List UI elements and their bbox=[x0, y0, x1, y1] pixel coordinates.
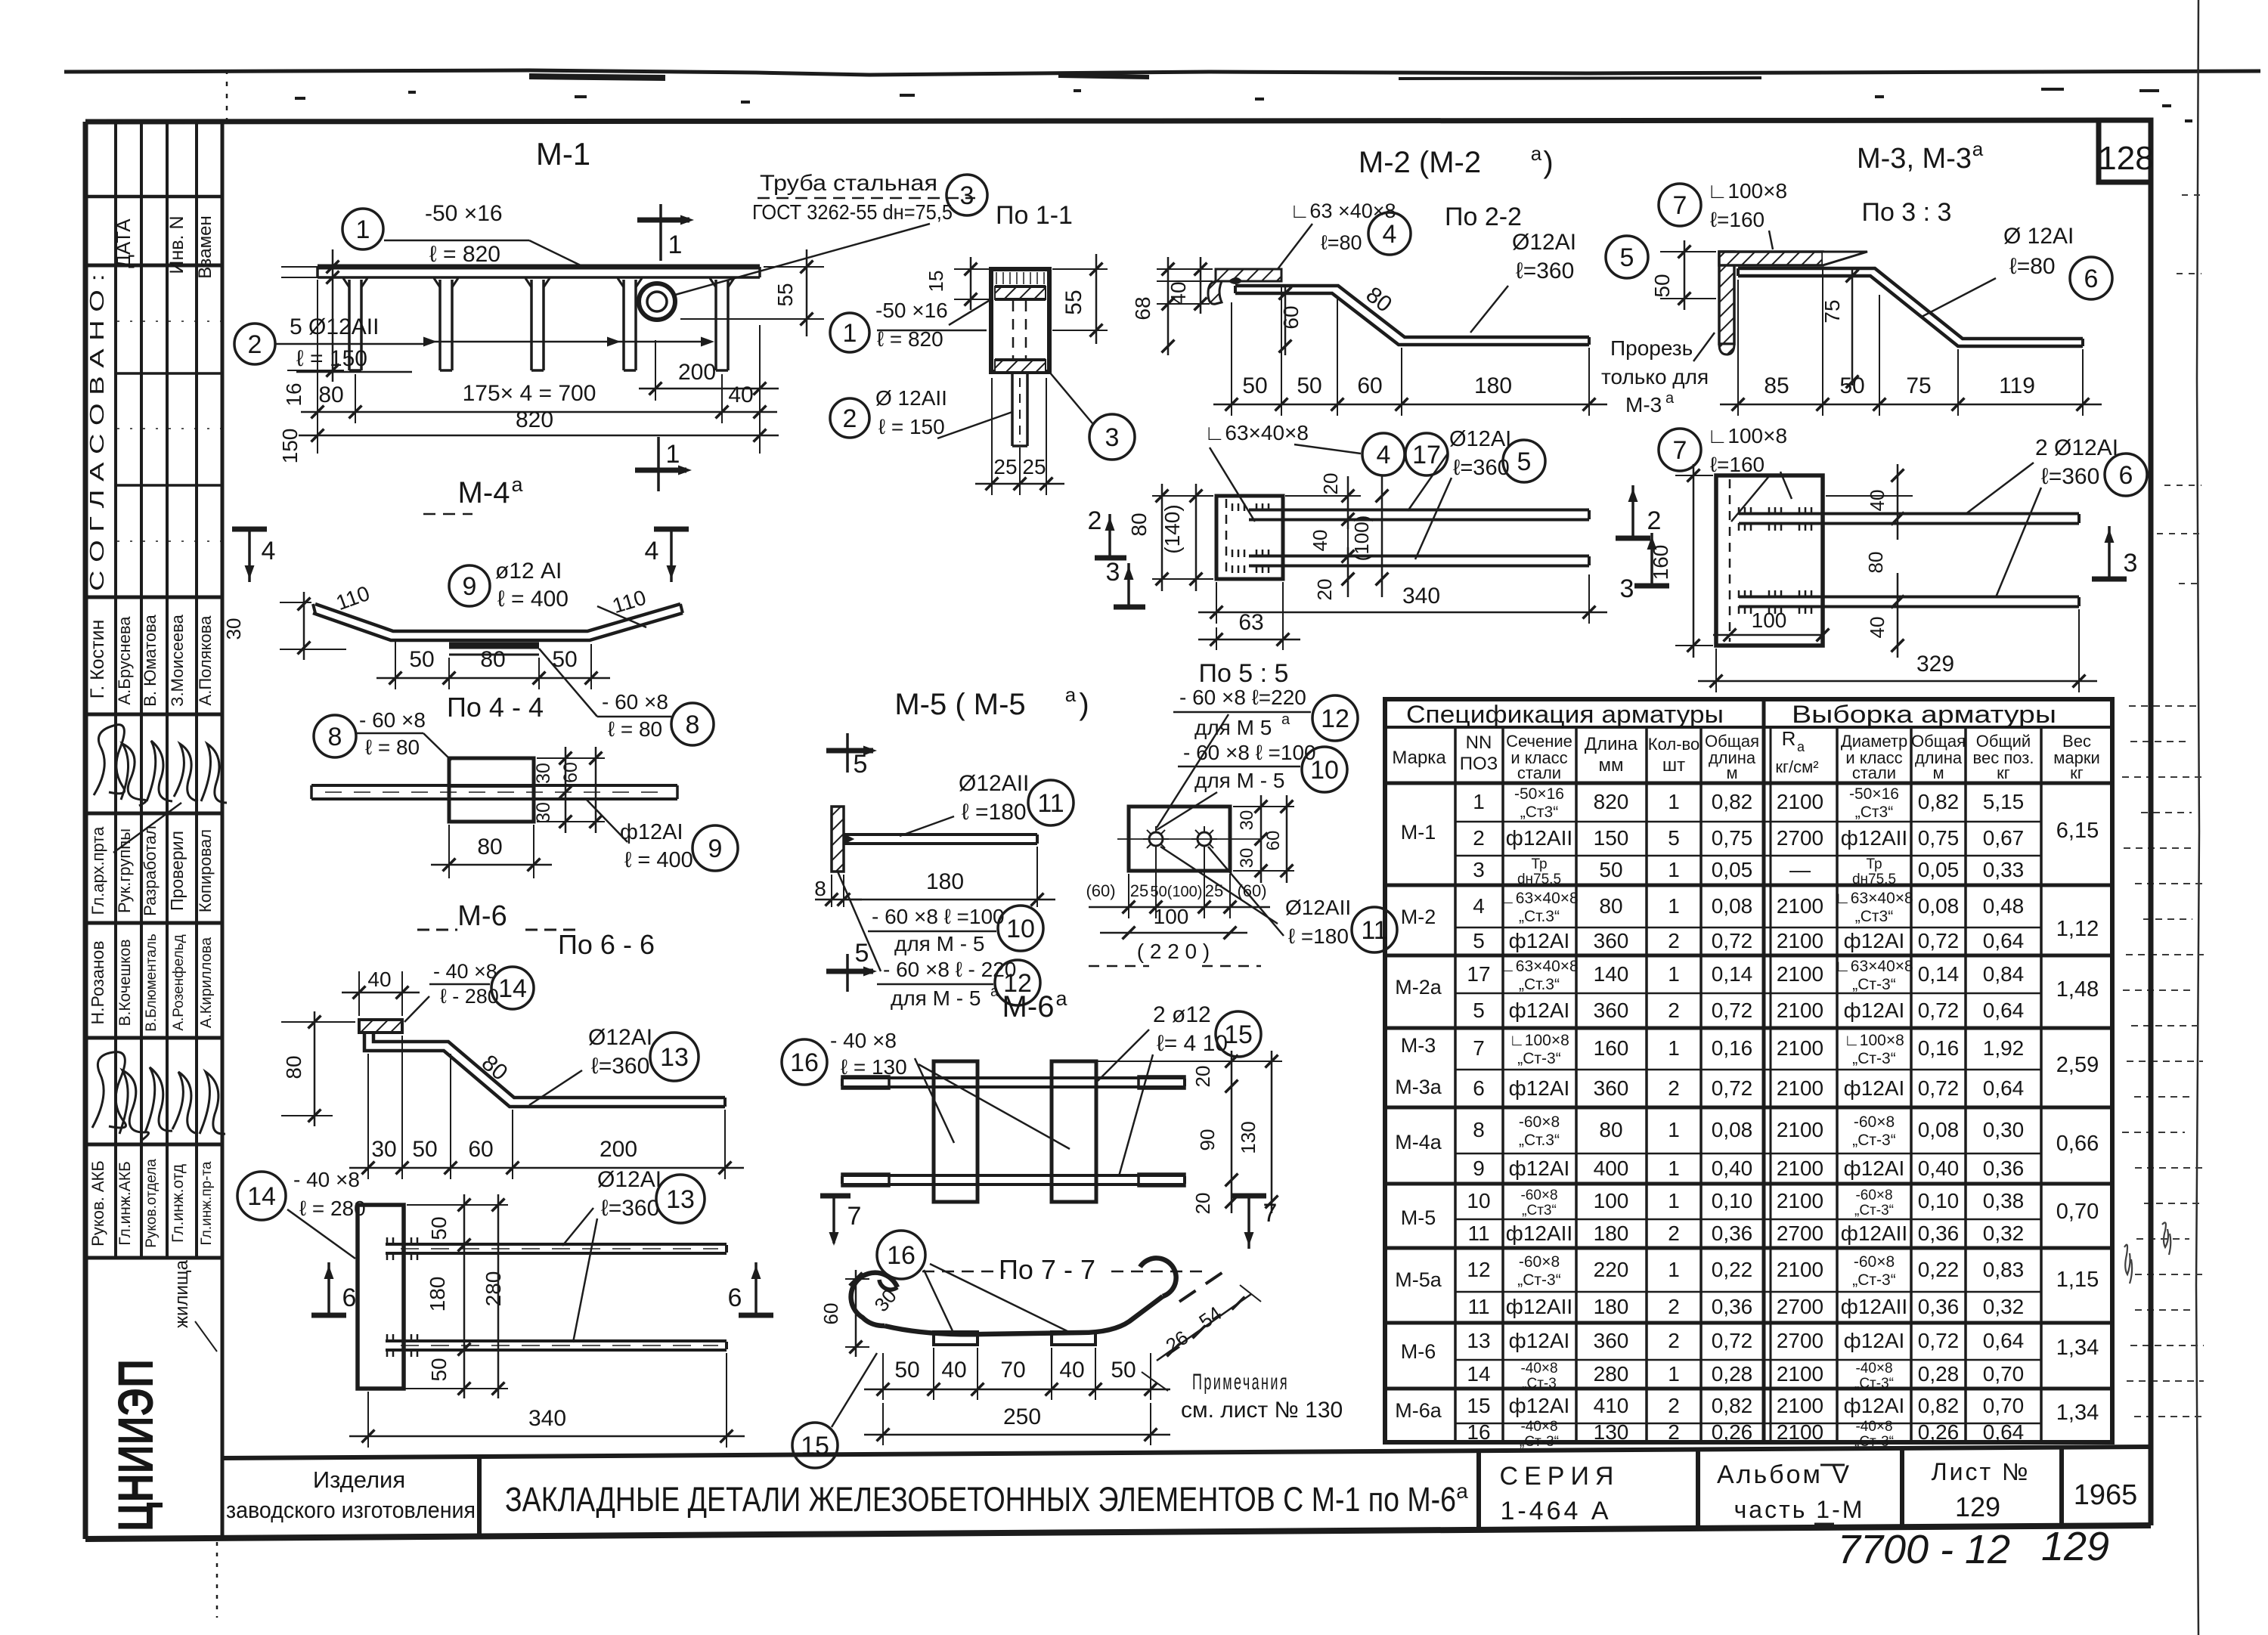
M-4a bent rod (pos 9) bbox=[315, 604, 680, 631]
svg-text:- 60 ×8: - 60 ×8 bbox=[359, 708, 426, 732]
svg-text:-40×8: -40×8 bbox=[1855, 1419, 1892, 1435]
svg-text:„Ст-3“: „Ст-3“ bbox=[1852, 1271, 1895, 1289]
svg-text:1: 1 bbox=[1668, 1036, 1680, 1060]
M-4a middle plate (pos 8) bbox=[449, 643, 539, 649]
svg-text:ℓ - 280: ℓ - 280 bbox=[440, 985, 499, 1008]
spec table row lines bbox=[1455, 821, 2041, 823]
svg-text:2100: 2100 bbox=[1777, 894, 1823, 918]
svg-text:40: 40 bbox=[941, 1358, 966, 1383]
M-6a section mark 7 right bbox=[1247, 1196, 1250, 1249]
svg-text:2100: 2100 bbox=[1777, 1420, 1823, 1444]
svg-text:40: 40 bbox=[1309, 530, 1331, 552]
M-2 bottom dims 50 50 60 180 bbox=[1231, 302, 1232, 416]
svg-text:2: 2 bbox=[1473, 826, 1485, 850]
svg-text:(140): (140) bbox=[1160, 504, 1184, 553]
svg-text:3: 3 bbox=[960, 181, 974, 210]
svg-text:-40×8: -40×8 bbox=[1520, 1419, 1557, 1435]
svg-text:-60×8: -60×8 bbox=[1519, 1113, 1560, 1131]
svg-text:0,72: 0,72 bbox=[1712, 929, 1753, 952]
svg-text:16: 16 bbox=[887, 1241, 916, 1270]
svg-text:160: 160 bbox=[1594, 1036, 1629, 1060]
svg-text:63: 63 bbox=[1238, 610, 1263, 635]
svg-text:А.Полякова: А.Полякова bbox=[196, 615, 215, 706]
svg-text:5: 5 bbox=[1620, 243, 1634, 272]
M-3 plan dims 40 80 40 bbox=[1826, 495, 1913, 497]
M-2 diag label 80 bbox=[1362, 282, 1397, 317]
svg-text:ф12АI: ф12АI bbox=[1509, 1329, 1570, 1352]
svg-text:-60×8: -60×8 bbox=[1520, 1188, 1557, 1203]
svg-text:1,34: 1,34 bbox=[2056, 1336, 2099, 1360]
svg-text:ℓ = 820: ℓ = 820 bbox=[429, 242, 500, 267]
M-2 weld dot bbox=[1229, 278, 1241, 283]
Po5-5 plate rect bbox=[1129, 807, 1230, 871]
svg-text:R: R bbox=[1782, 727, 1796, 750]
svg-text:часть 1-М: часть 1-М bbox=[1734, 1496, 1865, 1523]
svg-text:): ) bbox=[1543, 146, 1553, 179]
svg-text:dн75,5: dн75,5 bbox=[1517, 872, 1561, 887]
svg-text:25: 25 bbox=[1130, 881, 1148, 900]
stamp column row lines bbox=[85, 195, 222, 199]
svg-text:Н.Розанов: Н.Розанов bbox=[88, 941, 107, 1025]
svg-text:ф12АII: ф12АII bbox=[1506, 1295, 1572, 1318]
svg-text:0,75: 0,75 bbox=[1918, 826, 1960, 850]
svg-text:Изделия: Изделия bbox=[313, 1466, 405, 1493]
Po7-7 diag dims 26 54 bbox=[1157, 1294, 1251, 1361]
svg-text:160: 160 bbox=[1649, 545, 1672, 581]
svg-text:Проверил: Проверил bbox=[167, 831, 187, 911]
svg-text:ℓ =180: ℓ =180 bbox=[1288, 924, 1349, 948]
svg-text:30: 30 bbox=[222, 618, 245, 640]
svg-text:0,40: 0,40 bbox=[1918, 1157, 1960, 1180]
svg-text:2100: 2100 bbox=[1777, 1394, 1823, 1417]
svg-text:ℓ=360: ℓ=360 bbox=[1516, 259, 1574, 283]
M-6 plate -40x8 (pos 14) hatched bbox=[359, 1020, 402, 1033]
svg-text:3: 3 bbox=[1105, 423, 1120, 452]
svg-text:7: 7 bbox=[847, 1202, 862, 1231]
svg-text:„Ст3“: „Ст3“ bbox=[1855, 804, 1893, 821]
svg-text:1,92: 1,92 bbox=[1983, 1036, 2025, 1060]
svg-text:400: 400 bbox=[1594, 1157, 1629, 1180]
svg-text:„Ст.3“: „Ст.3“ bbox=[1519, 908, 1560, 925]
svg-text:4: 4 bbox=[262, 537, 276, 565]
svg-text:В.Кочешков: В.Кочешков bbox=[116, 939, 134, 1026]
svg-text:а: а bbox=[1055, 987, 1067, 1010]
svg-text:15: 15 bbox=[801, 1432, 829, 1460]
svg-text:1: 1 bbox=[666, 440, 680, 469]
svg-text:Рук.группы: Рук.группы bbox=[115, 828, 134, 913]
svg-text:В.Блюменталь: В.Блюменталь bbox=[144, 934, 160, 1032]
svg-text:4: 4 bbox=[645, 537, 659, 565]
svg-text:М-3: М-3 bbox=[1401, 1034, 1436, 1057]
svg-text:8: 8 bbox=[814, 877, 826, 900]
svg-text:0,26: 0,26 bbox=[1712, 1420, 1753, 1444]
svg-text:0,64: 0,64 bbox=[1983, 929, 2025, 952]
svg-text:50: 50 bbox=[894, 1358, 919, 1383]
svg-text:180: 180 bbox=[1594, 1295, 1629, 1318]
svg-text:7: 7 bbox=[1263, 1199, 1278, 1228]
M-3 angle horizontal leg hatched bbox=[1719, 252, 1823, 265]
detail M-1 plate -50x16 (pos 1) bbox=[318, 265, 760, 270]
svg-text:5 Ø12АII: 5 Ø12АII bbox=[290, 314, 379, 339]
svg-text:820: 820 bbox=[1594, 790, 1629, 813]
svg-text:стали: стали bbox=[1852, 763, 1896, 782]
label circle pos 1 with leader bbox=[342, 209, 383, 249]
svg-text:6: 6 bbox=[342, 1284, 357, 1312]
svg-text:2100: 2100 bbox=[1777, 790, 1823, 813]
svg-text:Ø 12АII: Ø 12АII bbox=[875, 386, 947, 410]
svg-text:220: 220 bbox=[1594, 1258, 1629, 1281]
svg-text:Марка: Марка bbox=[1392, 748, 1446, 768]
svg-text:-50 ×16: -50 ×16 bbox=[425, 201, 503, 226]
svg-text:Копировал: Копировал bbox=[196, 829, 215, 912]
M-5 dim 180 bbox=[1036, 847, 1038, 907]
svg-text:119: 119 bbox=[1999, 373, 2035, 398]
svg-text:55: 55 bbox=[1061, 290, 1086, 314]
M-4a section marks 4 bbox=[248, 529, 251, 582]
scan artifact: small specks below top line bbox=[295, 97, 305, 100]
Po7-7 dim 250 bbox=[882, 1403, 884, 1445]
svg-text:7: 7 bbox=[1673, 191, 1687, 220]
svg-text:0,14: 0,14 bbox=[1918, 962, 1960, 986]
svg-text:Длина: Длина bbox=[1585, 734, 1638, 754]
svg-text:ф12АI: ф12АI bbox=[1844, 1394, 1905, 1417]
svg-text:(100): (100) bbox=[1350, 516, 1373, 562]
svg-text:М-5: М-5 bbox=[1401, 1206, 1436, 1229]
svg-text:2700: 2700 bbox=[1777, 1222, 1823, 1245]
M-2a plan slot lines bbox=[1283, 519, 1348, 521]
svg-text:340: 340 bbox=[528, 1406, 566, 1431]
svg-text:ф12АI: ф12АI bbox=[1509, 1157, 1570, 1180]
svg-text:( 2 2 0 ): ( 2 2 0 ) bbox=[1137, 940, 1210, 963]
svg-text:50: 50 bbox=[1839, 373, 1864, 398]
svg-text:для М - 5: для М - 5 bbox=[1194, 769, 1284, 792]
svg-text:20: 20 bbox=[1191, 1066, 1214, 1088]
svg-text:1: 1 bbox=[1668, 1189, 1680, 1212]
svg-text:0,64: 0,64 bbox=[1983, 1420, 2025, 1444]
svg-text:1,48: 1,48 bbox=[2056, 977, 2099, 1002]
svg-text:50: 50 bbox=[1111, 1358, 1136, 1383]
svg-text:м: м bbox=[1726, 763, 1737, 782]
Po4-4 dim 80 bbox=[448, 825, 450, 878]
svg-text:2: 2 bbox=[1668, 1329, 1680, 1352]
svg-text:360: 360 bbox=[1594, 929, 1629, 952]
svg-text:80: 80 bbox=[282, 1055, 305, 1079]
svg-text:80: 80 bbox=[318, 382, 343, 407]
svg-text:-50×16: -50×16 bbox=[1849, 785, 1899, 803]
svg-text:2100: 2100 bbox=[1777, 1189, 1823, 1212]
svg-text:2: 2 bbox=[1668, 929, 1680, 952]
svg-text:3: 3 bbox=[1473, 858, 1485, 881]
svg-text:По 4 - 4: По 4 - 4 bbox=[447, 692, 544, 723]
svg-text:12: 12 bbox=[1321, 704, 1349, 733]
svg-text:14: 14 bbox=[247, 1182, 276, 1211]
svg-text:7700 - 12: 7700 - 12 bbox=[1838, 1527, 2010, 1572]
M-2a plan plate with angle bbox=[1216, 496, 1283, 579]
svg-text:75: 75 bbox=[1906, 373, 1931, 398]
svg-text:0,82: 0,82 bbox=[1918, 1394, 1960, 1417]
svg-text:Руков.отдела: Руков.отдела bbox=[144, 1159, 160, 1248]
svg-text:„Ст-3: „Ст-3 bbox=[1522, 1376, 1557, 1392]
svg-text:12: 12 bbox=[1467, 1258, 1490, 1281]
svg-text:Ø12АII: Ø12АII bbox=[959, 771, 1029, 796]
M-6a end sleeves bbox=[842, 1076, 889, 1088]
svg-text:0,16: 0,16 bbox=[1918, 1036, 1960, 1060]
svg-text:10: 10 bbox=[1310, 756, 1339, 785]
svg-text:0,82: 0,82 bbox=[1918, 790, 1960, 813]
svg-text:0,38: 0,38 bbox=[1983, 1189, 2025, 1212]
svg-text:ℓ=360: ℓ=360 bbox=[601, 1196, 659, 1221]
svg-text:8: 8 bbox=[1473, 1118, 1485, 1141]
svg-text:По 6 - 6: По 6 - 6 bbox=[558, 929, 655, 960]
svg-text:2: 2 bbox=[1088, 506, 1102, 535]
svg-text:1: 1 bbox=[1473, 790, 1485, 813]
svg-text:„Ст-3“: „Ст-3“ bbox=[1852, 1050, 1895, 1067]
M-6 plan plate (pos 14) bbox=[358, 1205, 404, 1389]
M-5 vertical plate hatched bbox=[832, 807, 844, 872]
svg-text:329: 329 bbox=[1916, 652, 1954, 677]
svg-text:13: 13 bbox=[666, 1185, 695, 1214]
M-1 right dim 55 bbox=[764, 266, 824, 268]
svg-text:ℓ=360: ℓ=360 bbox=[2041, 464, 2099, 489]
svg-text:1,15: 1,15 bbox=[2056, 1268, 2099, 1292]
Po1-1 pipe body bbox=[991, 269, 1049, 372]
svg-text:2100: 2100 bbox=[1777, 1362, 1823, 1386]
M-5 rod (pos 11) bbox=[844, 833, 1037, 836]
M-2a dim 63 bbox=[1282, 582, 1284, 650]
svg-text:Труба стальная: Труба стальная bbox=[760, 171, 937, 196]
svg-text:Взамен: Взамен bbox=[195, 215, 215, 278]
Po1-1 rod below (pos 2) bbox=[1011, 372, 1014, 446]
detail M-1 steel pipe (pos 3) section circle bbox=[639, 283, 675, 320]
svg-text:А.Кириллова: А.Кириллова bbox=[198, 937, 215, 1028]
spec table header split bbox=[1762, 699, 1766, 1442]
svg-text:-50 ×16: -50 ×16 bbox=[875, 299, 948, 322]
M-6 bottom dims 30 50 60 200 bbox=[367, 1054, 369, 1179]
svg-text:130: 130 bbox=[1594, 1420, 1629, 1444]
svg-text:2: 2 bbox=[1647, 506, 1662, 535]
svg-text:Гл.арх.прта: Гл.арх.прта bbox=[88, 826, 107, 915]
scan artifact: right edge vertical line bbox=[2196, 0, 2199, 1635]
M-3 angle 100x8 (pos 7) vertical leg hatched bbox=[1719, 252, 1734, 344]
svg-text:100: 100 bbox=[1594, 1189, 1629, 1212]
M-6 plan section marks 6 6 bbox=[327, 1262, 330, 1315]
svg-text:2: 2 bbox=[1668, 1222, 1680, 1245]
M-3 plan section mark 3 right bbox=[2108, 526, 2111, 579]
svg-text:75: 75 bbox=[1820, 299, 1844, 323]
Po1-1 top plate hatched bbox=[995, 286, 1046, 299]
svg-text:2 Ø12АI: 2 Ø12АI bbox=[2035, 435, 2118, 460]
svg-text:250: 250 bbox=[1003, 1404, 1041, 1429]
svg-text:„Ст-3“: „Ст-3“ bbox=[1852, 1132, 1895, 1149]
stamp slash mark bbox=[113, 803, 181, 853]
Po1-1 label circle 2 bbox=[830, 398, 869, 438]
svg-text:А.Бруснева: А.Бруснева bbox=[115, 616, 134, 705]
svg-text:360: 360 bbox=[1594, 999, 1629, 1022]
svg-text:а: а bbox=[1531, 142, 1542, 165]
svg-text:шт: шт bbox=[1662, 755, 1685, 776]
svg-text:820: 820 bbox=[516, 407, 553, 432]
svg-text:3: 3 bbox=[1620, 574, 1634, 603]
Po1-1 bottom plate hatched bbox=[995, 360, 1046, 372]
Po1-1 label circle 3 bbox=[1089, 414, 1135, 460]
svg-text:0,40: 0,40 bbox=[1712, 1157, 1753, 1180]
Po4-4 label circle 8 left bbox=[314, 715, 356, 757]
svg-text:М-3: М-3 bbox=[1625, 393, 1662, 416]
M-3 bottom dims 85 50 75 119 bbox=[1737, 280, 1739, 416]
svg-text:М-4а: М-4а bbox=[1395, 1131, 1442, 1153]
M-2a dim 340 bbox=[1216, 582, 1217, 624]
Po5-5 holes with weld rays bbox=[1149, 832, 1163, 846]
svg-text:„Ст3“: „Ст3“ bbox=[1522, 1203, 1557, 1219]
M-3 plan rods 2x d12 (pos 6) bbox=[1739, 512, 2079, 516]
svg-text:340: 340 bbox=[1402, 584, 1440, 608]
svg-text:50: 50 bbox=[409, 647, 434, 672]
svg-text:1: 1 bbox=[1668, 1258, 1680, 1281]
svg-text:По 1-1: По 1-1 bbox=[996, 201, 1073, 230]
M-3 plan plate 100x8 bbox=[1716, 475, 1823, 646]
svg-text:4: 4 bbox=[1377, 441, 1391, 469]
M-2a plan rods (pos 5) bbox=[1249, 509, 1589, 512]
svg-text:1965: 1965 bbox=[2074, 1479, 2138, 1511]
M-2a weld ticks bbox=[1232, 503, 1234, 511]
drawing frame bbox=[85, 120, 2151, 122]
scan artifact: right margin ruled dashes bbox=[2129, 705, 2201, 707]
svg-text:В. Юматова: В. Юматова bbox=[141, 614, 160, 706]
svg-text:50: 50 bbox=[1650, 274, 1674, 297]
svg-text:30: 30 bbox=[1237, 848, 1257, 869]
svg-text:0,72: 0,72 bbox=[1712, 999, 1753, 1022]
svg-text:М-4: М-4 bbox=[458, 476, 510, 509]
svg-text:„Ст-3“: „Ст-3“ bbox=[1854, 1434, 1894, 1450]
svg-text:ф12АI: ф12АI bbox=[1509, 929, 1570, 952]
svg-text:„Ст-3“: „Ст-3“ bbox=[1517, 1271, 1560, 1289]
svg-text:20: 20 bbox=[1319, 473, 1342, 495]
svg-text:1: 1 bbox=[1668, 962, 1680, 986]
svg-text:Разработал: Разработал bbox=[141, 825, 160, 916]
svg-text:М-1: М-1 bbox=[1401, 821, 1436, 844]
svg-text:„Ст-3“: „Ст-3“ bbox=[1854, 1203, 1894, 1219]
Po7-7 plates under rod bbox=[934, 1332, 978, 1345]
svg-text:М-2 (М-2: М-2 (М-2 bbox=[1359, 146, 1481, 179]
svg-text:2: 2 bbox=[1668, 1394, 1680, 1417]
svg-text:0,32: 0,32 bbox=[1983, 1295, 2025, 1318]
svg-text:90: 90 bbox=[1196, 1129, 1219, 1151]
svg-text:1,12: 1,12 bbox=[2056, 917, 2099, 941]
svg-text:68: 68 bbox=[1131, 296, 1154, 320]
svg-text:dн75,5: dн75,5 bbox=[1852, 872, 1896, 887]
svg-text:2100: 2100 bbox=[1777, 1118, 1823, 1141]
svg-text:0,14: 0,14 bbox=[1712, 962, 1753, 986]
M-3 plan weld ticks bbox=[1738, 507, 1740, 515]
svg-text:Кол-во: Кол-во bbox=[1648, 735, 1699, 754]
svg-text:-60×8: -60×8 bbox=[1855, 1188, 1892, 1203]
svg-text:129: 129 bbox=[1955, 1491, 2000, 1522]
svg-text:- 40 ×8: - 40 ×8 bbox=[293, 1168, 360, 1191]
svg-text:„Ст-3“: „Ст-3“ bbox=[1520, 1434, 1559, 1450]
M-3 plan dim 329 bbox=[1715, 649, 1717, 692]
svg-text:По 7 - 7: По 7 - 7 bbox=[999, 1254, 1095, 1285]
svg-text:60: 60 bbox=[560, 762, 581, 783]
svg-text:ø12 АI: ø12 АI bbox=[495, 559, 562, 584]
svg-text:16: 16 bbox=[282, 382, 305, 406]
svg-text:0,72: 0,72 bbox=[1918, 929, 1960, 952]
svg-text:0,08: 0,08 bbox=[1918, 894, 1960, 918]
svg-text:9: 9 bbox=[463, 572, 477, 601]
Po4-4 plate rect bbox=[449, 758, 534, 822]
svg-text:- 40 ×8: - 40 ×8 bbox=[830, 1029, 897, 1052]
Po1-1 inner dashed rebar lines bbox=[1012, 301, 1015, 358]
svg-text:13: 13 bbox=[660, 1043, 689, 1072]
svg-text:50(100): 50(100) bbox=[1151, 884, 1203, 900]
svg-text:- 60 ×8 ℓ =100: - 60 ×8 ℓ =100 bbox=[1183, 741, 1316, 764]
svg-text:ℓ = 150: ℓ = 150 bbox=[878, 415, 945, 438]
svg-text:0,26: 0,26 bbox=[1918, 1420, 1960, 1444]
svg-text:0,36: 0,36 bbox=[1918, 1222, 1960, 1245]
svg-text:„Ст3“: „Ст3“ bbox=[1520, 804, 1558, 821]
svg-text:0,72: 0,72 bbox=[1918, 1329, 1960, 1352]
svg-text:20: 20 bbox=[1313, 579, 1336, 601]
svg-text:∟63×40×8: ∟63×40×8 bbox=[1835, 890, 1913, 907]
svg-text:-60×8: -60×8 bbox=[1854, 1253, 1895, 1271]
scan artifact: smudges near right margin bbox=[2124, 1245, 2132, 1284]
svg-text:0,48: 0,48 bbox=[1983, 894, 2025, 918]
svg-text:0,28: 0,28 bbox=[1918, 1362, 1960, 1386]
svg-text:Руков. АКБ: Руков. АКБ bbox=[88, 1160, 107, 1246]
svg-text:25: 25 bbox=[1205, 881, 1223, 900]
svg-text:20: 20 bbox=[1191, 1193, 1214, 1215]
svg-text:∟100×8: ∟100×8 bbox=[1707, 424, 1787, 447]
svg-text:14: 14 bbox=[498, 974, 527, 1003]
svg-text:0,70: 0,70 bbox=[1983, 1394, 2025, 1417]
svg-text:2: 2 bbox=[1668, 1076, 1680, 1100]
svg-text:- 60 ×8 ℓ =100: - 60 ×8 ℓ =100 bbox=[872, 905, 1005, 928]
svg-text:80: 80 bbox=[477, 835, 502, 859]
M-3 rod (pos 6) bbox=[1738, 268, 2083, 339]
svg-text:16: 16 bbox=[790, 1048, 819, 1077]
svg-text:для М - 5: для М - 5 bbox=[891, 986, 981, 1010]
svg-text:): ) bbox=[1079, 688, 1089, 721]
svg-text:25: 25 bbox=[1022, 455, 1046, 478]
spec table column lines bbox=[1454, 727, 1457, 1442]
svg-text:Тр: Тр bbox=[1531, 856, 1547, 872]
svg-text:10: 10 bbox=[1006, 915, 1035, 943]
svg-text:М-1: М-1 bbox=[536, 136, 590, 172]
svg-text:Спецификация арматуры: Спецификация арматуры bbox=[1406, 701, 1724, 728]
svg-text:Примечания: Примечания bbox=[1192, 1370, 1289, 1395]
svg-text:Лист №: Лист № bbox=[1932, 1458, 2031, 1485]
svg-text:15: 15 bbox=[1467, 1394, 1490, 1417]
svg-text:кг/см²: кг/см² bbox=[1775, 757, 1818, 776]
svg-text:∟100×8: ∟100×8 bbox=[1844, 1032, 1904, 1049]
svg-text:2 ø12: 2 ø12 bbox=[1153, 1002, 1211, 1027]
svg-text:0,30: 0,30 bbox=[1983, 1118, 2025, 1141]
svg-text:2700: 2700 bbox=[1777, 1295, 1823, 1318]
svg-text:ф12АII: ф12АII bbox=[1841, 1295, 1907, 1318]
svg-text:СЕРИЯ: СЕРИЯ bbox=[1500, 1462, 1620, 1491]
svg-text:1: 1 bbox=[1668, 790, 1680, 813]
M-6 plan label circle 14 bbox=[237, 1172, 286, 1220]
svg-text:1: 1 bbox=[1668, 1362, 1680, 1386]
svg-text:для М 5: для М 5 bbox=[1194, 716, 1272, 739]
svg-text:50: 50 bbox=[412, 1137, 437, 1162]
svg-text:60: 60 bbox=[468, 1137, 493, 1162]
svg-text:40: 40 bbox=[367, 968, 391, 991]
svg-text:ℓ=80: ℓ=80 bbox=[2009, 254, 2056, 279]
svg-text:2100: 2100 bbox=[1777, 962, 1823, 986]
svg-text:∟100×8: ∟100×8 bbox=[1707, 179, 1787, 203]
svg-text:2100: 2100 bbox=[1777, 1076, 1823, 1100]
svg-text:а: а bbox=[990, 983, 999, 1000]
